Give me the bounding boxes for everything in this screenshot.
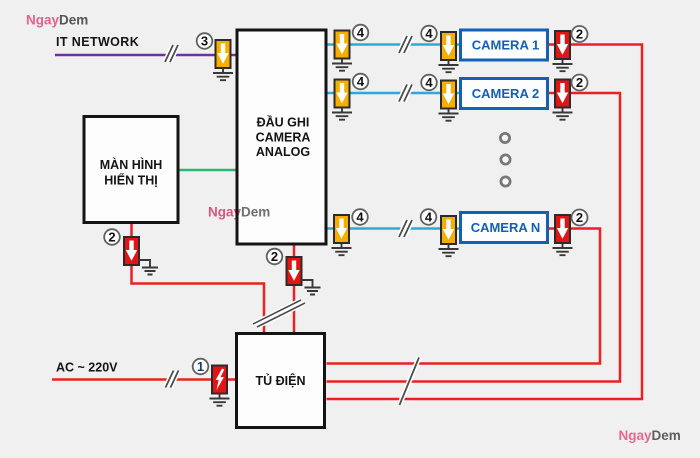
- camera 1 box: [461, 30, 548, 60]
- svg-text:4: 4: [356, 210, 364, 225]
- svg-text:ĐẦU GHI: ĐẦU GHI: [257, 114, 310, 129]
- svg-text:CAMERA 1: CAMERA 1: [472, 38, 539, 53]
- callout 3: [197, 33, 213, 49]
- ground of SPD 3: [213, 68, 233, 80]
- slash on coax 2: [399, 85, 412, 102]
- ground: [332, 108, 352, 120]
- surge arrester SPD 4 camera 1 at camera: [441, 32, 456, 60]
- wire IT NETWORK (purple): [55, 54, 236, 57]
- ground: [332, 59, 352, 71]
- callout 4: [352, 209, 368, 225]
- wire power camera 1 loop: [327, 45, 643, 400]
- ground: [332, 243, 352, 255]
- surge arrester SPD 4 camera 2 at DVR: [335, 80, 350, 108]
- wire AC 220V feed: [52, 378, 236, 381]
- callout 4: [421, 26, 437, 42]
- label AC 220V: [56, 361, 118, 375]
- surge arrester SPD 4 camera 2 at camera: [441, 81, 456, 109]
- svg-text:4: 4: [357, 74, 365, 89]
- ground: [553, 108, 573, 120]
- callout 2: [267, 249, 283, 265]
- callout 1: [193, 359, 209, 375]
- watermark top left: [26, 13, 88, 28]
- cabinet box tu dien: [237, 334, 325, 428]
- svg-text:ANALOG: ANALOG: [256, 145, 310, 159]
- svg-text:2: 2: [576, 75, 583, 90]
- surge arrester SPD 2 camera N power: [555, 215, 570, 243]
- surge arrester SPD 2 monitor power: [124, 237, 139, 265]
- ground: [553, 243, 573, 255]
- wire power monitor to cabinet: [132, 223, 265, 333]
- svg-text:CAMERA: CAMERA: [256, 130, 311, 144]
- callout 4: [421, 209, 437, 225]
- surge arrester SPD 4 camera N at camera: [441, 216, 456, 244]
- ground: [439, 60, 459, 72]
- svg-text:3: 3: [201, 34, 208, 49]
- svg-text:AC ~ 220V: AC ~ 220V: [56, 361, 118, 375]
- svg-text:IT NETWORK: IT NETWORK: [56, 35, 139, 49]
- svg-text:2: 2: [576, 27, 583, 42]
- svg-text:2: 2: [271, 249, 278, 264]
- camera 2 box: [461, 79, 548, 109]
- svg-text:TỦ ĐIỆN: TỦ ĐIỆN: [256, 373, 306, 388]
- label IT NETWORK: [56, 35, 139, 49]
- svg-text:4: 4: [425, 75, 433, 90]
- ellipsis dots more cameras: [500, 133, 510, 186]
- wire coax camera 2: [327, 92, 460, 95]
- slash on IT wire: [165, 45, 178, 62]
- monitor box man hinh hien thi: [84, 117, 178, 223]
- watermark center: [208, 205, 270, 220]
- ground: [553, 59, 573, 71]
- slash on coax 1: [399, 36, 412, 53]
- callout 4: [353, 25, 369, 41]
- svg-text:2: 2: [576, 210, 583, 225]
- surge arrester SPD 2 DVR power: [287, 257, 302, 285]
- watermark bottom right: [619, 428, 681, 443]
- wire coax camera N: [327, 227, 460, 230]
- svg-text:4: 4: [357, 25, 365, 40]
- slash on coax N: [399, 220, 412, 237]
- wire power camera N loop: [327, 229, 601, 364]
- double slash crossing cabinet feed wires: [253, 300, 305, 327]
- surge arrester SPD 1 AC mains: [212, 366, 227, 394]
- svg-text:NgayDem: NgayDem: [619, 428, 681, 443]
- wire power DVR to cabinet: [293, 245, 296, 333]
- svg-text:CAMERA N: CAMERA N: [471, 220, 541, 235]
- wire coax camera 1: [327, 43, 460, 46]
- svg-text:HIỂN THỊ: HIỂN THỊ: [104, 173, 157, 188]
- surge arrester SPD 3 on IT wire: [216, 40, 231, 68]
- surge arrester SPD 4 camera N at DVR: [334, 215, 349, 243]
- svg-text:MÀN HÌNH: MÀN HÌNH: [100, 157, 163, 172]
- callout 2: [572, 26, 588, 42]
- callout 2: [104, 229, 120, 245]
- ground: [439, 109, 459, 121]
- ground of DVR SPD: [302, 280, 321, 295]
- svg-text:CAMERA 2: CAMERA 2: [472, 86, 539, 101]
- wire power camera 2 loop: [327, 93, 621, 382]
- svg-text:4: 4: [425, 210, 433, 225]
- surge arrester SPD 2 camera 2 power: [555, 80, 570, 108]
- wire green monitor to DVR: [179, 169, 236, 172]
- svg-text:1: 1: [197, 359, 204, 374]
- ground: [439, 244, 459, 256]
- callout 2: [572, 210, 588, 226]
- camera N box: [461, 213, 548, 243]
- svg-text:NgayDem: NgayDem: [208, 205, 270, 220]
- DVR box U1 dau ghi camera analog: [237, 30, 326, 244]
- svg-text:NgayDem: NgayDem: [26, 13, 88, 28]
- svg-text:4: 4: [425, 26, 433, 41]
- callout 4: [353, 74, 369, 90]
- DVR box border segment over watermark: [236, 203, 239, 222]
- ground of monitor SPD: [139, 260, 158, 275]
- callout 2: [572, 75, 588, 91]
- surge arrester SPD 4 camera 1 at DVR: [335, 31, 350, 59]
- surge arrester SPD 2 camera 1 power: [555, 31, 570, 59]
- ground of SPD 1: [210, 394, 230, 406]
- callout 4: [421, 75, 437, 91]
- slash crossing camera power wires: [400, 358, 420, 406]
- slash on AC wire: [166, 371, 179, 388]
- svg-text:2: 2: [108, 230, 115, 245]
